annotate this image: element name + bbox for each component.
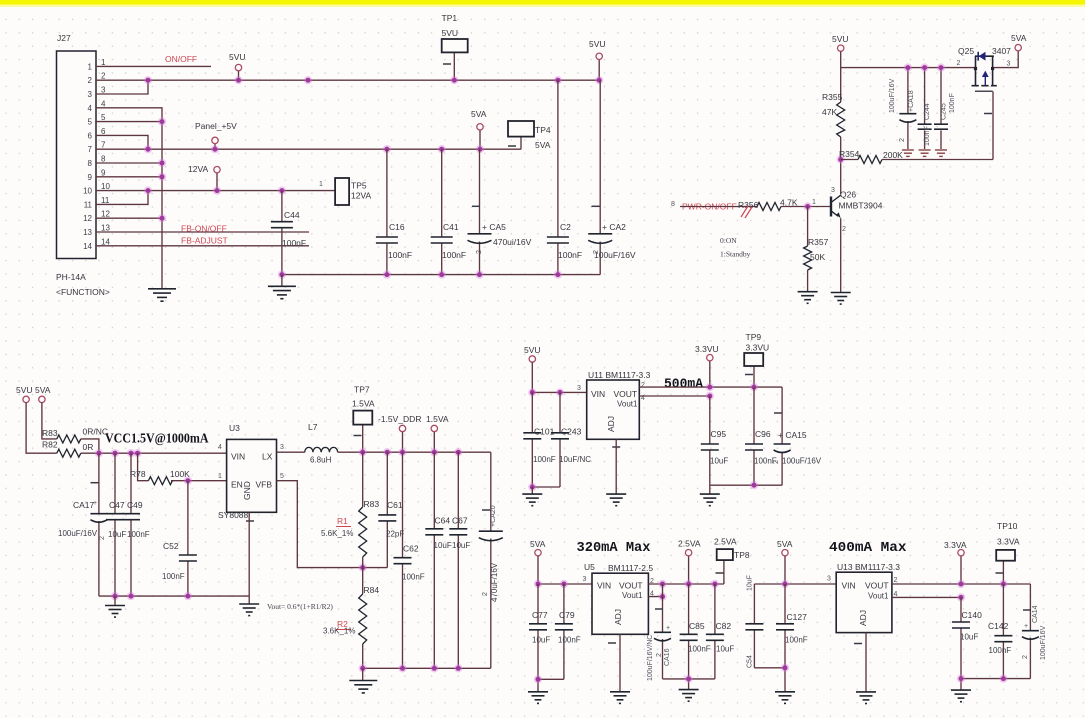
svg-text:R357: R357: [808, 237, 829, 247]
svg-text:R84: R84: [364, 585, 380, 595]
svg-text:47K: 47K: [822, 107, 837, 117]
junction dots U5 VIN: [534, 580, 568, 588]
svg-text:3: 3: [583, 576, 587, 583]
svg-text:100nF: 100nF: [989, 646, 1012, 655]
svg-text:C245: C245: [941, 103, 948, 120]
net label FB-ON/OFF: [181, 224, 227, 234]
wire U11 input ground rail: [532, 486, 560, 488]
wire U11 VOUT rail: [639, 361, 782, 396]
svg-text:3: 3: [577, 385, 581, 392]
svg-text:VCC1.5V@1000mA: VCC1.5V@1000mA: [105, 432, 209, 447]
svg-text:+CA18: +CA18: [908, 90, 915, 112]
svg-text:5VU: 5VU: [229, 52, 246, 62]
svg-text:13: 13: [101, 224, 110, 233]
svg-text:2: 2: [899, 138, 906, 142]
power port 12VA: [214, 167, 220, 173]
junction dot U5 output gnd: [684, 675, 692, 683]
wire U11 output ground rail: [710, 484, 782, 486]
wire VIN rail to U3: [81, 452, 227, 454]
power port 5VA (TP4): [471, 109, 487, 130]
svg-text:TP4: TP4: [535, 125, 551, 135]
junction dots U5 VOUT: [658, 580, 719, 601]
net label FB-ADJUST: [181, 236, 228, 246]
svg-text:3: 3: [280, 444, 284, 451]
svg-text:Vout1: Vout1: [622, 591, 643, 600]
wire 1.5V output rail: [338, 425, 491, 453]
power port 3.3VA: [944, 540, 967, 556]
svg-text:100nF: 100nF: [127, 530, 150, 539]
svg-text:1: 1: [101, 58, 106, 67]
capacitor C244: [918, 68, 932, 149]
ground (U3): [239, 596, 259, 616]
svg-text:C52: C52: [163, 541, 179, 551]
junction dots 12VA rail: [144, 186, 286, 194]
capacitor CA5 (polarized): [468, 149, 532, 274]
svg-text:Q25: Q25: [958, 46, 974, 56]
svg-text:6: 6: [101, 127, 106, 136]
junction dot R354 branch: [837, 155, 845, 163]
svg-text:7: 7: [88, 145, 93, 154]
test point TP10: [996, 521, 1020, 573]
svg-text:CA14: CA14: [1032, 605, 1039, 623]
svg-text:400mA Max: 400mA Max: [829, 541, 907, 556]
svg-text:TP10: TP10: [997, 521, 1018, 531]
svg-text:8: 8: [88, 159, 93, 168]
svg-text:C44: C44: [284, 210, 300, 220]
svg-text:12: 12: [101, 210, 110, 219]
svg-text:+CA20: +CA20: [490, 505, 497, 527]
junction dot C52 branch: [184, 477, 192, 485]
op-amp U5 BM1117-2.5 box: [583, 562, 655, 643]
svg-text:5VU: 5VU: [16, 385, 33, 395]
svg-text:PH-14A: PH-14A: [56, 272, 86, 282]
svg-text:Q26: Q26: [840, 190, 856, 200]
svg-text:2: 2: [894, 577, 898, 584]
svg-text:100nF: 100nF: [402, 573, 425, 582]
wire U5 input gnd rail: [538, 679, 564, 692]
wire U5 VOUT rail: [648, 556, 724, 597]
junction dot output gnd: [750, 481, 758, 489]
junction dot input gnd rail: [528, 483, 536, 491]
title VCC1.5V@1000mA: [105, 432, 209, 447]
svg-text:SY8088: SY8088: [218, 510, 249, 520]
svg-text:12: 12: [83, 214, 92, 223]
svg-text:+ CA15: + CA15: [778, 430, 807, 440]
wire Q26 emitter to ground: [840, 218, 842, 292]
svg-text:100nF: 100nF: [558, 636, 581, 645]
resistor R357 50K: [804, 207, 829, 271]
svg-text:C62: C62: [403, 544, 419, 554]
svg-text:C96: C96: [755, 429, 771, 439]
ground (caps rail): [268, 286, 296, 298]
capacitor C16: [376, 149, 412, 274]
test point TP9: [744, 332, 769, 375]
svg-text:+: +: [1024, 623, 1028, 630]
capacitor C243: [551, 392, 591, 487]
ground (C101/C243): [522, 494, 542, 506]
svg-text:2: 2: [99, 536, 106, 540]
wire gnd stub C101: [531, 487, 533, 494]
svg-text:9: 9: [88, 173, 93, 182]
power port 3.3VU: [695, 344, 719, 361]
svg-text:100nF: 100nF: [924, 126, 931, 146]
svg-text:R356: R356: [738, 200, 759, 210]
svg-text:C142: C142: [988, 621, 1009, 631]
svg-text:3: 3: [831, 187, 835, 194]
junction dots 5VU rail: [144, 76, 604, 84]
capacitor C49: [122, 453, 150, 596]
svg-text:100nF: 100nF: [785, 636, 808, 645]
wire gnd stub C95: [709, 485, 711, 494]
svg-text:C85: C85: [689, 621, 705, 631]
svg-text:0:ON: 0:ON: [720, 236, 737, 245]
capacitor CA16 (polarized): [647, 584, 671, 681]
svg-text:100nF: 100nF: [442, 250, 466, 260]
capacitor C61 22pF: [378, 452, 404, 567]
inductor L7 6.8uH: [305, 422, 338, 465]
wire 12VA rail (pins 10,11): [96, 173, 335, 204]
J27 pin numbers 1-14: [83, 58, 110, 251]
net label ON/OFF: [165, 54, 197, 64]
svg-text:TP1: TP1: [442, 13, 458, 23]
svg-text:100nF: 100nF: [688, 645, 711, 654]
svg-text:4: 4: [218, 444, 222, 451]
test point TP4: [508, 121, 551, 150]
svg-text:10: 10: [83, 187, 92, 196]
svg-text:3: 3: [827, 576, 831, 583]
svg-text:2: 2: [957, 60, 961, 67]
svg-text:5VA: 5VA: [777, 539, 793, 549]
svg-text:3.3VA: 3.3VA: [944, 540, 967, 550]
svg-text:10uF: 10uF: [434, 541, 452, 550]
svg-text:5.6K_1%: 5.6K_1%: [321, 529, 353, 538]
formula Vout: [267, 602, 333, 611]
power port -1.5V_DDR: [378, 414, 421, 432]
wire J27 ground bus pins 4,5,8,9,12: [96, 108, 162, 289]
test point TP7: [352, 385, 375, 436]
wire R357 to ground: [807, 270, 809, 292]
capacitor CA18 (polarized): [889, 68, 916, 149]
net label PWR-ON/OFF: [671, 201, 737, 212]
svg-text:TP9: TP9: [746, 332, 762, 342]
svg-text:3: 3: [101, 86, 106, 95]
capacitor CA2 (polarized): [588, 80, 636, 274]
svg-text:C127: C127: [787, 612, 808, 622]
svg-text:10uF/NC: 10uF/NC: [559, 455, 591, 464]
ground (1.5V section): [349, 681, 377, 693]
power port 5VU (U11): [524, 345, 541, 362]
svg-text:2: 2: [656, 653, 663, 657]
svg-text:2: 2: [482, 592, 489, 596]
wire U5 ADJ pin: [619, 634, 621, 692]
svg-text:C77: C77: [532, 610, 548, 620]
junction dots caps bottom rail: [278, 270, 562, 278]
svg-text:C41: C41: [443, 222, 459, 232]
svg-text:C79: C79: [559, 610, 575, 620]
yellow header bar: [0, 0, 1085, 5]
svg-text:C49: C49: [127, 500, 143, 510]
svg-text:+ CA2: + CA2: [602, 222, 626, 232]
svg-text:320mA Max: 320mA Max: [577, 541, 651, 556]
wire 5VA to R83 row: [42, 403, 57, 439]
svg-text:3: 3: [1007, 61, 1011, 68]
svg-text:GND: GND: [242, 481, 252, 500]
svg-text:ADJ: ADJ: [858, 610, 868, 626]
wire PWR-ON/OFF to R356: [680, 206, 757, 208]
svg-text:C2: C2: [560, 222, 571, 232]
svg-text:3.6K_1%: 3.6K_1%: [323, 627, 355, 636]
svg-text:C64: C64: [435, 516, 451, 526]
op-amp U13 BM1117-3.3 box: [827, 562, 900, 644]
svg-text:5: 5: [280, 473, 284, 480]
svg-text:R82: R82: [42, 440, 58, 450]
ground (U11 output): [700, 494, 720, 506]
wire 1.5V section ground rail: [363, 667, 491, 669]
svg-text:VFB: VFB: [256, 480, 273, 490]
title 400mA Max: [829, 541, 907, 556]
svg-text:22pF: 22pF: [386, 530, 404, 539]
note 0:ON / 1:Standby: [720, 236, 751, 259]
svg-text:10uF: 10uF: [960, 633, 978, 642]
svg-text:C95: C95: [711, 429, 727, 439]
svg-text:+: +: [666, 625, 670, 632]
wire VFB feedback: [277, 481, 388, 568]
svg-text:10uF: 10uF: [747, 575, 754, 591]
svg-text:C101: C101: [534, 427, 555, 437]
wire C54/C127 gnd rail: [754, 668, 785, 692]
svg-text:0R/NC: 0R/NC: [83, 427, 109, 437]
svg-text:ADJ: ADJ: [606, 416, 616, 432]
wire pin14 FB-ADJUST: [96, 245, 309, 247]
svg-text:5VU: 5VU: [524, 345, 541, 355]
svg-text:4: 4: [88, 104, 93, 113]
svg-text:TP7: TP7: [354, 385, 370, 395]
svg-text:C47: C47: [109, 500, 125, 510]
svg-text:Vout= 0.6*(1+R1/R2): Vout= 0.6*(1+R1/R2): [267, 602, 333, 611]
svg-text:2.5VA: 2.5VA: [714, 537, 737, 547]
svg-text:FB-ON/OFF: FB-ON/OFF: [181, 224, 227, 234]
junction dots ground rail: [111, 592, 192, 600]
power port 5VU (J27): [229, 52, 246, 71]
svg-text:2.5VA: 2.5VA: [678, 539, 701, 549]
ground (U13 ADJ): [856, 692, 876, 704]
wire U13 VOUT rail: [892, 556, 1031, 598]
ground (C245): [935, 150, 947, 156]
svg-text:C61: C61: [387, 500, 403, 510]
resistor R354 200K: [839, 149, 993, 164]
wire caps bottom rail: [282, 274, 600, 276]
wire R83 to VIN node: [81, 439, 99, 453]
svg-text:VOUT: VOUT: [614, 389, 638, 399]
wire 5VU to R82 row: [26, 403, 57, 454]
svg-text:VIN: VIN: [597, 581, 611, 591]
transistor Q25 (P-MOSFET 3407): [957, 46, 1012, 114]
svg-text:VIN: VIN: [231, 452, 245, 462]
svg-text:470ui/16V: 470ui/16V: [493, 237, 532, 247]
svg-text:C54: C54: [747, 655, 754, 668]
capacitor C140: [952, 597, 982, 678]
svg-text:+ CA5: + CA5: [482, 222, 506, 232]
test point TP1: [442, 13, 468, 64]
junction dot C127: [781, 580, 789, 588]
test point TP5: [319, 178, 371, 205]
title 320mA Max: [577, 541, 651, 556]
capacitor C41: [431, 149, 466, 274]
power port 5VU (top): [589, 39, 606, 60]
wire U5 output gnd rail: [663, 679, 715, 690]
junction dots U11 VIN: [528, 388, 564, 396]
capacitor C101: [523, 392, 555, 487]
svg-text:8: 8: [101, 155, 106, 164]
svg-text:CA16: CA16: [664, 648, 671, 666]
capacitor C79: [555, 584, 581, 679]
svg-text:100uF/16V: 100uF/16V: [889, 78, 896, 113]
svg-text:100nF: 100nF: [533, 455, 556, 464]
junction dots VIN rail: [95, 449, 142, 457]
wire ground stub (caps): [114, 596, 116, 605]
svg-text:6: 6: [88, 131, 93, 140]
wire U11 ADJ pin: [615, 439, 617, 494]
capacitor C77: [529, 584, 550, 679]
junction dots Panel rail: [144, 145, 484, 153]
svg-text:U3: U3: [229, 423, 240, 433]
svg-text:TP5: TP5: [351, 181, 367, 191]
junction dots section ground rail: [359, 664, 463, 672]
svg-text:U5: U5: [584, 562, 595, 572]
op-amp U3 SY8088 regulator box: [218, 423, 284, 521]
junction dot R357 branch: [803, 202, 811, 210]
capacitor C52: [162, 481, 197, 596]
wire R356 to Q26 base: [781, 199, 831, 207]
junction dots U13 gnd rail: [957, 674, 1008, 682]
svg-text:3: 3: [88, 90, 93, 99]
resistor R355 47K: [822, 92, 845, 137]
svg-text:ADJ: ADJ: [613, 609, 623, 625]
resistor R83 0R/NC: [42, 427, 108, 443]
svg-text:100uF/16V: 100uF/16V: [594, 250, 636, 260]
svg-text:VOUT: VOUT: [865, 581, 889, 591]
capacitor CA14 (polarized): [1022, 584, 1047, 679]
power port 5VA (switch): [1011, 33, 1027, 51]
wire R355 to Q26 collector: [840, 137, 842, 194]
svg-text:5: 5: [101, 113, 106, 122]
wire pin13 FB-ON/OFF: [96, 231, 309, 233]
svg-text:5VA: 5VA: [535, 140, 551, 150]
capacitor C54 (rotated label): [745, 575, 763, 668]
svg-text:R1: R1: [337, 516, 348, 526]
svg-text:2: 2: [476, 250, 483, 254]
wire R354 to Q25 gate: [992, 91, 994, 159]
connector J27 box: [56, 33, 110, 297]
svg-text:R354: R354: [839, 149, 860, 159]
capacitor C67: [449, 452, 470, 668]
svg-text:1.5VA: 1.5VA: [352, 399, 375, 409]
svg-text:10uF: 10uF: [716, 645, 734, 654]
resistor R83fb R1 5.6K: [321, 452, 379, 567]
svg-text:C16: C16: [389, 222, 405, 232]
svg-text:5: 5: [88, 118, 93, 127]
svg-text:8: 8: [671, 201, 675, 208]
svg-text:C244: C244: [924, 103, 931, 120]
svg-text:2: 2: [1022, 655, 1029, 659]
svg-text:3.3VU: 3.3VU: [695, 344, 719, 354]
ground (mid-left caps): [105, 606, 125, 618]
op-amp U11 BM1117-3.3 box: [577, 370, 651, 447]
wire Panel_+5V rail (pins 6,7): [96, 130, 521, 149]
svg-text:11: 11: [101, 196, 110, 205]
svg-text:Vout1: Vout1: [617, 400, 638, 409]
wire ground stub R84: [362, 668, 364, 680]
wire mid-left ground rail: [99, 595, 249, 597]
junction dot C54 gnd: [781, 664, 789, 672]
resistor R82 0R: [42, 440, 93, 458]
svg-text:1:Standby: 1:Standby: [720, 250, 751, 259]
resistor R84 R2 3.6K: [323, 568, 379, 669]
svg-text:6.8uH: 6.8uH: [310, 456, 332, 465]
capacitor C127: [776, 584, 808, 668]
svg-text:5VA: 5VA: [1011, 33, 1027, 43]
power port 5VA (reg): [35, 385, 51, 403]
ground (R357): [798, 292, 818, 304]
svg-text:L7: L7: [308, 422, 318, 432]
capacitor C47: [106, 453, 126, 596]
svg-text:10uF: 10uF: [710, 457, 728, 466]
svg-text:R83: R83: [364, 499, 380, 509]
capacitor C2: [547, 80, 582, 274]
svg-text:12VA: 12VA: [188, 164, 208, 174]
junction dots ground bus: [158, 117, 166, 222]
svg-text:U11 BM1117-3.3: U11 BM1117-3.3: [588, 370, 651, 380]
svg-text:Panel_+5V: Panel_+5V: [195, 121, 237, 131]
wire 5VU vertical + top rail: [841, 51, 974, 102]
capacitor CA15 (polarized): [773, 387, 822, 485]
junction dot U5 input gnd: [534, 675, 542, 683]
wire LX row to L7: [277, 451, 305, 453]
capacitor C142: [988, 584, 1012, 679]
ground (U5 output): [679, 690, 699, 702]
svg-text:C140: C140: [962, 610, 983, 620]
svg-text:500mA: 500mA: [664, 378, 704, 393]
capacitor C85: [680, 584, 711, 679]
svg-text:100uF/16V: 100uF/16V: [782, 457, 822, 466]
power port Panel_+5V: [212, 137, 218, 143]
svg-text:3.3VU: 3.3VU: [746, 343, 770, 353]
svg-text:2: 2: [842, 226, 846, 233]
junction dots U13 VOUT: [957, 580, 1008, 602]
power port 5VU (switch section): [832, 34, 849, 51]
capacitor C64: [425, 452, 452, 668]
svg-text:2: 2: [641, 382, 645, 389]
svg-text:5VA: 5VA: [35, 385, 51, 395]
svg-text:J27: J27: [57, 33, 71, 43]
svg-text:13: 13: [83, 228, 92, 237]
svg-text:100nF: 100nF: [558, 250, 582, 260]
wire ground stub C44: [281, 275, 283, 287]
capacitor C95: [701, 396, 729, 485]
svg-text:100uF/16V: 100uF/16V: [1040, 625, 1047, 660]
svg-text:10uF: 10uF: [532, 636, 550, 645]
capacitor C44: [271, 191, 306, 275]
ground (CA18): [902, 150, 914, 156]
wire U3 GND pin: [248, 512, 250, 596]
svg-text:10uF: 10uF: [108, 530, 126, 539]
svg-text:100nF: 100nF: [282, 238, 306, 248]
svg-text:14: 14: [83, 242, 92, 251]
svg-text:1: 1: [812, 199, 816, 206]
svg-text:LX: LX: [262, 452, 273, 462]
svg-text:3.3VA: 3.3VA: [997, 537, 1020, 547]
svg-text:100uF/16V/NC: 100uF/16V/NC: [647, 635, 654, 681]
